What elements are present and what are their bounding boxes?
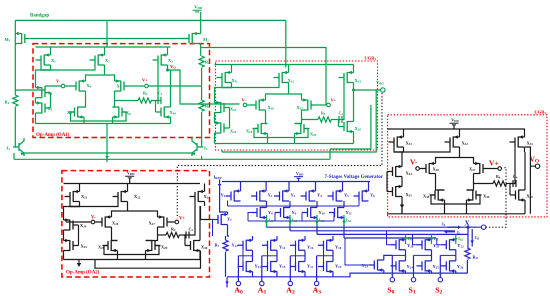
svg-text:X2: X2 [105,58,110,64]
svg-text:VDD: VDD [296,171,304,177]
svg-text:Y5: Y5 [344,192,349,198]
svg-text:UGB1: UGB1 [364,56,376,62]
svg-text:IA1: IA1 [292,218,298,224]
svg-text:Y1: Y1 [221,192,226,198]
svg-text:X28: X28 [98,245,105,251]
svg-text:Y10: Y10 [319,210,326,216]
svg-text:C1: C1 [158,91,163,97]
svg-text:X19: X19 [310,132,317,138]
svg-text:V+: V+ [142,78,148,83]
svg-text:X6: X6 [87,83,92,89]
svg-text:Bandgap: Bandgap [30,14,49,19]
svg-text:R4: R4 [143,91,148,97]
svg-text:X34: X34 [406,171,413,177]
svg-text:J2: J2 [204,146,208,152]
svg-text:V+: V+ [179,217,185,222]
svg-text:X24: X24 [80,223,87,229]
svg-text:X18: X18 [246,129,253,135]
svg-text:C4: C4 [513,174,518,180]
svg-text:X38: X38 [423,194,430,200]
svg-text:Y15: Y15 [279,263,286,269]
svg-text:R7: R7 [215,243,220,249]
svg-text:X13: X13 [355,78,362,84]
svg-text:I2: I2 [457,230,461,236]
svg-text:X16: X16 [268,105,275,111]
svg-text:Y19: Y19 [335,263,342,269]
svg-text:X32: X32 [462,141,469,147]
svg-text:X27: X27 [149,221,156,227]
svg-text:X12: X12 [288,78,295,84]
svg-text:IA2: IA2 [319,218,325,224]
svg-text:J1: J1 [6,146,10,152]
svg-text:7-Stages Voltage Generator: 7-Stages Voltage Generator [325,175,384,180]
svg-text:IS2: IS2 [458,236,463,242]
svg-text:VDD: VDD [451,118,459,124]
svg-text:X33: X33 [527,141,534,147]
svg-text:Y13: Y13 [255,263,262,269]
svg-text:Y11: Y11 [346,210,353,216]
svg-text:X7: X7 [117,84,122,90]
svg-text:X26: X26 [112,221,119,227]
svg-text:IO: IO [475,235,480,241]
svg-text:C2: C2 [339,111,344,117]
svg-text:Y16: Y16 [307,245,314,251]
svg-text:V-: V- [410,158,418,167]
svg-text:X5: X5 [48,106,53,112]
svg-text:V-: V- [91,216,96,221]
svg-text:X22: X22 [134,194,141,200]
svg-text:IA3: IA3 [346,218,352,224]
svg-text:X9: X9 [126,111,131,117]
svg-text:RO: RO [473,255,479,261]
svg-text:M1: M1 [5,37,11,43]
svg-text:Y23: Y23 [362,263,369,269]
svg-text:V-: V- [56,79,61,84]
svg-text:X25: X25 [81,244,88,250]
svg-text:X1: X1 [51,58,56,64]
svg-text:X11: X11 [232,78,239,84]
svg-text:R6: R6 [496,174,501,180]
svg-text:R1: R1 [5,100,10,106]
svg-text:IREF: IREF [214,175,222,181]
svg-text:Y25: Y25 [433,264,440,270]
svg-text:Y8: Y8 [268,210,273,216]
svg-text:Y7: Y7 [227,217,232,223]
svg-text:VDD: VDD [194,5,203,11]
svg-text:V-: V- [242,98,247,103]
svg-text:IA0: IA0 [269,218,275,224]
svg-text:I1: I1 [442,222,446,228]
svg-text:Y6: Y6 [370,192,375,198]
svg-text:VDD: VDD [127,171,135,177]
svg-text:VO: VO [170,64,176,70]
svg-text:X17: X17 [297,105,304,111]
svg-text:X37: X37 [469,167,476,173]
svg-text:R2: R2 [205,60,210,66]
svg-text:Y18: Y18 [335,245,342,251]
svg-text:X36: X36 [433,167,440,173]
svg-text:Y14: Y14 [279,245,286,251]
svg-text:X30: X30 [201,245,208,251]
svg-text:X39: X39 [483,194,490,200]
svg-text:V+: V+ [331,98,337,103]
svg-text:Op-Amp (OA2): Op-Amp (OA2) [66,271,100,276]
svg-text:X35: X35 [406,192,413,198]
svg-text:X21: X21 [81,194,88,200]
svg-text:X23: X23 [204,194,211,200]
svg-text:Y2: Y2 [268,192,273,198]
svg-text:X15: X15 [230,128,237,134]
svg-text:VBG: VBG [376,80,384,86]
svg-text:Y4: Y4 [317,192,322,198]
svg-text:X20: X20 [355,126,362,132]
svg-text:Y24: Y24 [407,264,414,270]
svg-text:X4: X4 [48,91,53,97]
svg-text:Y3: Y3 [291,192,296,198]
svg-text:R5: R5 [321,111,326,117]
svg-text:C3: C3 [189,227,194,233]
svg-text:R4: R4 [171,227,176,233]
svg-text:Y17: Y17 [307,263,314,269]
svg-text:UGB2: UGB2 [534,110,546,116]
svg-text:Y22: Y22 [457,243,464,249]
svg-text:X10: X10 [170,110,177,116]
svg-text:Op-Amp (OA1): Op-Amp (OA1) [36,133,70,138]
svg-text:Y9: Y9 [292,210,297,216]
svg-text:X29: X29 [161,245,168,251]
svg-text:X14: X14 [230,107,237,113]
svg-text:V+: V+ [489,159,499,168]
svg-text:X3: X3 [168,58,173,64]
svg-text:Y26: Y26 [457,264,464,270]
svg-text:X31: X31 [406,141,413,147]
svg-text:M2: M2 [203,37,209,43]
svg-text:X8: X8 [67,110,72,116]
svg-text:Y12: Y12 [232,243,239,249]
